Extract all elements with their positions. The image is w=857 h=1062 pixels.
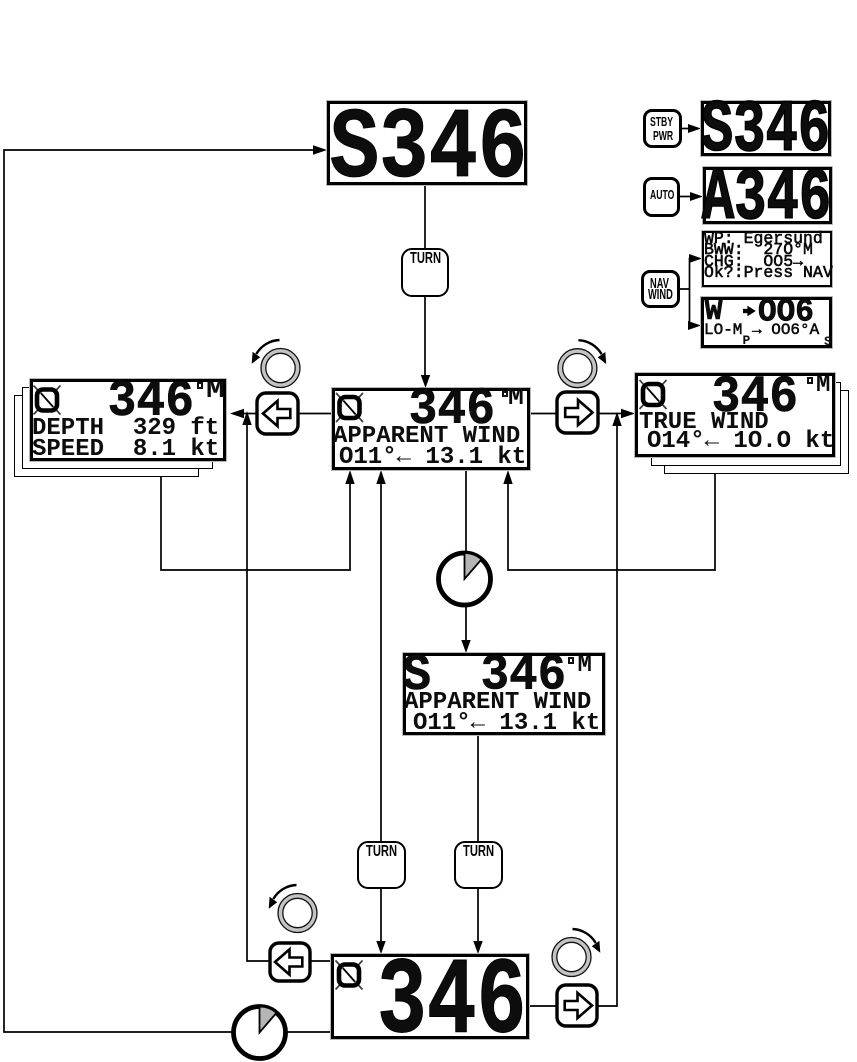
text 346 bottom	[377, 949, 526, 1058]
text degM right	[816, 374, 830, 398]
wire: bottom-left button up to left stack junction	[247, 425, 271, 961]
wire: timer down to mid display	[465, 605, 467, 642]
wire: center display right to right-arrow button	[530, 413, 558, 415]
wire: bottom display to bottom-right button	[529, 1005, 557, 1007]
arrowhead into right stack	[621, 409, 635, 419]
text S mid	[402, 650, 431, 702]
button STBY PWR	[643, 109, 682, 148]
display: NAV waypoint info	[702, 231, 832, 287]
icon crossed-circle bottom display	[336, 961, 363, 990]
wire: TURN2 down to bottom display	[477, 889, 479, 943]
text APPARENT WIND mid	[404, 691, 591, 715]
display: NAV wind W006	[701, 297, 832, 348]
knob arrow cw bottom-right	[573, 929, 601, 953]
text 346 left	[108, 376, 194, 428]
arrowhead up into center display (left U)	[345, 470, 354, 484]
knob bottom-left	[278, 894, 317, 933]
wire: STBY to S346 display	[682, 128, 690, 130]
wire: TURN1 down to bottom display	[380, 889, 382, 943]
text P	[743, 334, 751, 347]
arrowhead up into center display (right U)	[503, 470, 512, 484]
display stack: right (behind 2)	[664, 390, 849, 474]
knob arrow ccw left-center	[252, 340, 280, 364]
wire: left-arrow button to left stack	[243, 413, 257, 415]
wire: center display down to timer	[465, 470, 467, 553]
arrowhead down into bottom display at x381	[376, 941, 385, 954]
text A346 right column	[702, 164, 832, 237]
display stack: left (behind 2)	[14, 395, 199, 477]
arrowhead into NAV display 2	[688, 321, 701, 330]
display: right column A346	[703, 167, 832, 224]
knob arrow ccw bottom-left	[269, 885, 297, 909]
button right-arrow (bottom row)	[557, 985, 597, 1026]
display stack: right (behind 1)	[651, 382, 841, 466]
button AUTO	[643, 177, 680, 217]
display: mid S APPARENT WIND	[403, 653, 605, 735]
text 346 center	[409, 384, 495, 436]
button left-arrow (center row)	[257, 393, 298, 434]
display: top S346	[327, 101, 527, 185]
button TURN lower-right	[454, 841, 503, 889]
arrowhead into NAV display 1	[689, 254, 702, 263]
text degM mid	[578, 654, 592, 678]
wire: bottom-left button to bottom display	[310, 960, 331, 962]
button left-arrow (bottom row)	[270, 943, 310, 981]
wire: center display left to left-arrow button	[299, 413, 332, 415]
knob left-center	[261, 349, 300, 388]
knob arrow cw right-center	[578, 340, 606, 364]
arrowhead down into bottom display at x478	[473, 941, 482, 954]
display: center APPARENT WIND	[332, 388, 530, 470]
wire: mid display down to TURN2	[477, 735, 479, 841]
button TURN top	[401, 248, 449, 297]
button TURN lower-left	[357, 841, 406, 889]
solid arrow NAV wind	[743, 304, 758, 318]
text WP line	[704, 231, 823, 248]
text BWW line	[704, 242, 813, 259]
text wind data mid	[413, 712, 600, 736]
wire: TURN1 up to center display	[380, 483, 382, 841]
button right-arrow (center row)	[557, 392, 598, 433]
display: bottom 346	[331, 954, 529, 1039]
wire: right stack bottom, down-left-up into center display	[508, 474, 715, 570]
text wind data right	[647, 430, 834, 454]
text S346 top	[330, 99, 528, 199]
knob right-center	[558, 349, 597, 388]
display: right column S346	[701, 101, 831, 156]
text SPEED row	[32, 438, 219, 462]
wire: bottom-right button up to right stack junction	[592, 426, 617, 1006]
knob bottom-right	[552, 938, 591, 977]
wire: timer to bottom display	[287, 1031, 331, 1033]
wire: right-arrow button to right stack	[598, 413, 622, 415]
text APPARENT WIND center	[333, 425, 520, 449]
icon crossed-circle right display	[640, 380, 667, 409]
text wind data center	[339, 446, 526, 470]
timer center	[439, 553, 491, 605]
icon crossed-circle left display	[34, 386, 61, 415]
text Ok line	[704, 265, 833, 282]
display stack: left (behind 1)	[22, 387, 213, 469]
display: left DEPTH/SPEED	[30, 379, 226, 461]
wire: NAV WIND branch stem	[680, 259, 690, 326]
text LO-M line	[704, 322, 819, 338]
text TRUE WIND	[639, 411, 769, 435]
text degM left	[206, 380, 225, 404]
wire: big loop from bottom timer left, up left edge, into top display	[4, 150, 314, 1032]
arrowhead up into center display at x381	[376, 470, 385, 484]
wire: TURN0 to center display	[424, 297, 426, 377]
icon crossed-circle center display	[336, 393, 363, 422]
arrowhead up at x247	[242, 411, 251, 425]
text 346 mid	[481, 651, 567, 702]
text DEPTH row	[32, 417, 219, 441]
display: right TRUE WIND	[635, 373, 835, 457]
text S	[824, 335, 832, 348]
arrowhead into left stack	[230, 409, 244, 419]
text S346 right column	[701, 96, 831, 169]
arrowhead into center display top	[421, 375, 430, 388]
timer bottom-left	[234, 1007, 286, 1059]
wire: left stack bottom, down-right-up into center display	[161, 477, 350, 570]
text W	[705, 297, 723, 327]
arrowhead into top display	[313, 145, 327, 155]
wire: top display to TURN0	[424, 185, 426, 248]
arrowhead down into mid display	[461, 640, 470, 653]
text 006	[758, 296, 814, 329]
button NAV WIND	[641, 270, 680, 308]
arrowhead up at x617	[612, 412, 621, 426]
text 346 right	[712, 372, 798, 424]
wire: AUTO to A346 display	[680, 196, 691, 198]
text CHG line	[704, 254, 803, 271]
text degM center	[508, 387, 524, 411]
